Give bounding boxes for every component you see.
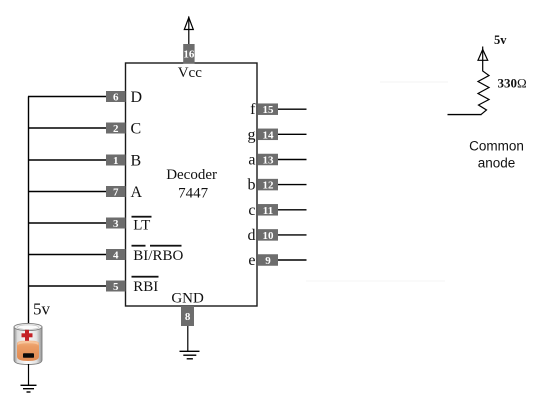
svg-text:anode: anode [478,155,516,170]
pin 16 (Vcc) [183,44,195,64]
svg-text:330Ω: 330Ω [498,76,527,91]
power symbol: +5V arrow above pin 16 [184,18,193,30]
wire: segment d output [278,234,307,236]
svg-text:5v: 5v [33,300,51,319]
label C [131,121,142,138]
svg-text:8: 8 [185,311,191,323]
label LT with overline [132,216,152,234]
svg-text:9: 9 [265,255,271,267]
svg-text:1: 1 [113,155,119,167]
svg-text:f: f [250,101,256,118]
svg-text:13: 13 [263,155,275,167]
pin 2 [106,123,126,135]
pin 13 [258,154,278,167]
pin 8 (GND) [181,306,194,326]
svg-text:4: 4 [113,249,119,261]
svg-text:15: 15 [263,104,275,116]
label b [248,177,256,194]
wire: segment g output [278,133,307,135]
wire: bus to pin 5 (RBI) [28,285,106,287]
svg-text:D: D [131,89,143,106]
wire: segment b output [278,184,307,186]
ground symbol below pin 8 [180,351,200,359]
wire: segment a output [278,159,307,161]
svg-text:Common: Common [469,139,524,154]
wire: battery negative to ground [28,364,30,385]
label Decoder 7447 [166,167,217,201]
svg-text:2: 2 [113,123,119,135]
wire: bus to pin 7 (A) [28,191,106,193]
ground symbol below battery [21,385,37,392]
label d [248,227,256,244]
label 5v at resistor [494,33,507,47]
pin 10 [258,229,278,242]
wire: bus to pin 1 (B) [28,159,106,161]
svg-text:5: 5 [113,281,119,293]
power symbol: 5v arrow above resistor [478,47,488,61]
label Common anode [469,139,524,171]
label BI/RBO with overlines [132,245,184,264]
label 330 ohm [498,76,527,91]
pin 15 [258,103,278,116]
svg-text:11: 11 [263,205,273,217]
label GND [171,291,204,307]
svg-text:C: C [131,121,142,138]
wire: pin 16 up to +5V arrow [188,17,190,45]
svg-text:b: b [248,177,256,194]
label RBI with overline [132,276,159,295]
label D [131,89,143,106]
IC U1: 7447 BCD to seven-segment decoder body [126,63,258,306]
svg-text:12: 12 [263,180,275,192]
resistor R1 330 ohm zigzag [478,60,489,114]
pin 12 [258,179,278,192]
svg-text:A: A [131,184,143,201]
faint artifact line 2 [306,280,445,282]
svg-text:10: 10 [263,230,275,242]
svg-text:7: 7 [113,186,119,198]
wire: bus to pin 6 (D) [28,96,106,98]
wire: pin 8 down to ground [187,326,189,351]
svg-text:e: e [248,252,255,269]
wire: segment f output [278,108,307,110]
wire: segment c output [278,209,307,211]
pin 1 [106,155,126,167]
label f [250,101,256,118]
svg-text:a: a [248,152,255,169]
svg-text:Vcc: Vcc [178,65,202,81]
svg-text:g: g [248,126,256,143]
svg-text:7447: 7447 [178,185,209,201]
pin 9 [258,254,278,267]
label Vcc [178,65,202,81]
label g [248,126,256,143]
label B [131,153,142,170]
svg-text:Decoder: Decoder [166,167,217,183]
pin 7 [106,186,126,198]
label e [248,252,255,269]
faint artifact line [380,81,448,83]
svg-text:14: 14 [263,129,275,141]
svg-text:6: 6 [113,91,119,103]
battery BT1 5V [14,323,42,364]
svg-text:d: d [248,227,256,244]
wire: bus to pin 3 (LT) [28,222,106,224]
wire: resistor bottom lead to common anode [448,114,482,116]
svg-text:BI/RBO: BI/RBO [133,248,183,264]
svg-text:c: c [248,202,255,219]
svg-text:RBI: RBI [133,279,158,295]
wire: bus to pin 2 (C) [28,127,106,129]
svg-text:16: 16 [183,49,195,61]
svg-text:3: 3 [113,218,119,230]
pin 14 [258,129,278,142]
pin 4 [106,249,126,261]
label 5v at battery [33,300,51,319]
pin 6 [106,91,126,103]
wire: +5V bus vertical from battery [28,97,30,324]
pin 3 [106,218,126,230]
pin 11 [258,204,278,217]
pin 5 [106,281,126,293]
svg-text:LT: LT [133,218,150,234]
svg-text:GND: GND [171,291,204,307]
wire: segment e output [278,259,307,261]
svg-text:5v: 5v [494,33,507,47]
label c [248,202,255,219]
svg-text:B: B [131,153,142,170]
wire: bus to pin 4 (BI/RBO) [28,254,106,256]
label A [131,184,143,201]
label a [248,152,255,169]
